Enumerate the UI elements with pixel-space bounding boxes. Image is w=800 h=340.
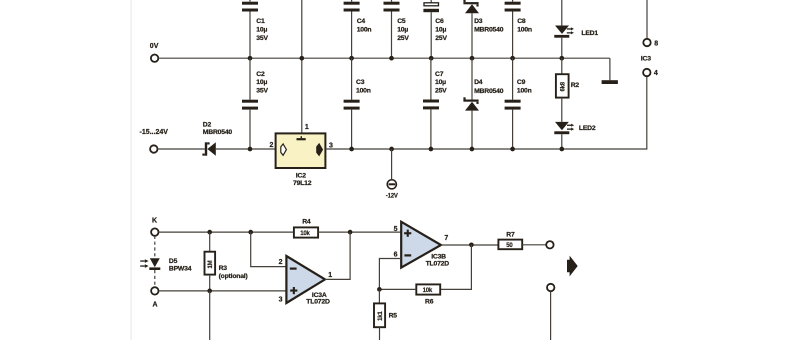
output arrow <box>567 256 578 277</box>
capacitor C1 <box>242 0 268 58</box>
svg-text:7: 7 <box>444 235 448 242</box>
svg-text:C2: C2 <box>256 71 265 78</box>
svg-text:10k: 10k <box>300 231 310 237</box>
svg-text:10µ: 10µ <box>397 26 408 33</box>
svg-text:-12V: -12V <box>386 193 398 199</box>
wire input <box>158 148 205 150</box>
wire A rail <box>159 290 287 292</box>
node output IC3A <box>348 230 353 235</box>
svg-text:100n: 100n <box>357 26 372 33</box>
wire IC3 pin8 <box>646 0 648 39</box>
node C4/C3 <box>349 56 354 61</box>
wire -12V tap <box>391 149 393 179</box>
svg-text:C3: C3 <box>356 79 365 86</box>
svg-text:0V: 0V <box>150 43 159 50</box>
node C8/C9 <box>510 56 515 61</box>
node R3 bottom <box>207 289 212 294</box>
svg-text:4: 4 <box>654 70 658 77</box>
node -12V tap <box>389 147 394 152</box>
svg-text:100n: 100n <box>356 87 371 94</box>
terminal out1 <box>546 241 553 248</box>
scan edge line <box>130 0 133 340</box>
photodiode D5 <box>140 258 192 272</box>
wire dashed D5 to A <box>154 270 156 287</box>
svg-text:K: K <box>152 217 157 224</box>
svg-text:D3: D3 <box>474 18 483 25</box>
pin IC3 p4 <box>643 69 650 76</box>
wire out2 down <box>550 291 552 340</box>
svg-text:25V: 25V <box>435 35 447 42</box>
svg-text:MBR0540: MBR0540 <box>474 88 504 95</box>
svg-text:1: 1 <box>305 124 309 131</box>
svg-text:IC3: IC3 <box>641 56 651 63</box>
svg-text:A: A <box>153 302 158 309</box>
resistor R2 <box>556 58 580 122</box>
svg-text:D2: D2 <box>203 122 212 129</box>
node C5 0V <box>389 56 394 61</box>
node C3 rail <box>349 147 354 152</box>
node C7 rail <box>429 147 434 152</box>
svg-text:35V: 35V <box>256 88 268 95</box>
wire IC3B out <box>441 244 498 246</box>
svg-text:R3: R3 <box>219 265 228 272</box>
LED1 <box>554 0 598 58</box>
capacitor C3 <box>344 58 371 149</box>
LED2 <box>554 122 596 149</box>
wire R3 down <box>209 291 211 340</box>
svg-text:R2: R2 <box>571 82 580 89</box>
wire IC2 out rail <box>325 77 646 150</box>
resistor R7 <box>498 231 522 249</box>
capacitor C9 <box>505 58 532 149</box>
svg-text:C4: C4 <box>357 18 366 25</box>
svg-text:1k1: 1k1 <box>378 311 384 321</box>
svg-text:MBR0540: MBR0540 <box>203 129 233 136</box>
node C9 rail <box>510 147 515 152</box>
svg-text:LED1: LED1 <box>581 30 598 37</box>
svg-text:C1: C1 <box>256 18 265 25</box>
node C1/C2 0V <box>248 56 253 61</box>
svg-text:TL072D: TL072D <box>426 261 450 268</box>
svg-text:8: 8 <box>654 40 658 47</box>
capacitor C5 <box>384 0 410 58</box>
node feedback tap <box>248 230 253 235</box>
op-amp IC3B <box>394 222 450 268</box>
svg-text:C7: C7 <box>435 71 444 78</box>
terminal 0V <box>151 55 158 62</box>
wire R7 out <box>522 244 546 246</box>
capacitor C4 <box>344 0 372 58</box>
wire to pin2 <box>251 232 287 267</box>
svg-text:10µ: 10µ <box>256 26 267 33</box>
wire dashed K to D5 <box>154 236 156 258</box>
svg-text:C9: C9 <box>517 79 526 86</box>
op-amp IC3A <box>279 256 333 306</box>
svg-text:79L12: 79L12 <box>293 180 312 187</box>
svg-text:25V: 25V <box>435 88 447 95</box>
svg-text:25V: 25V <box>397 35 409 42</box>
terminal A <box>151 287 158 294</box>
svg-text:2: 2 <box>279 259 283 266</box>
resistor R4 <box>294 218 318 237</box>
svg-text:10µ: 10µ <box>435 79 446 86</box>
wire IC2 pin1 riser <box>301 0 303 133</box>
svg-text:IC3B: IC3B <box>431 254 446 261</box>
pin IC3 p8 <box>643 39 650 46</box>
wire R6 riser <box>440 245 471 290</box>
wire K rail <box>159 231 294 233</box>
wire 0V rail <box>158 57 610 59</box>
regulator IC2 <box>270 124 334 187</box>
svg-text:TL072D: TL072D <box>306 299 330 306</box>
node C6/C7 <box>429 56 434 61</box>
ground <box>602 80 618 84</box>
node R5/R6 <box>377 287 382 292</box>
wire R4 to IC3B <box>318 231 401 233</box>
node R3 top <box>207 230 212 235</box>
node C2 rail <box>248 147 253 152</box>
svg-text:R7: R7 <box>506 231 515 238</box>
svg-text:C8: C8 <box>517 18 526 25</box>
svg-text:D5: D5 <box>169 258 178 265</box>
terminal -15...24V <box>150 145 157 152</box>
svg-text:C6: C6 <box>435 18 444 25</box>
svg-text:D4: D4 <box>474 79 483 86</box>
node D3/D4 <box>470 56 475 61</box>
diode D2 <box>202 122 232 156</box>
resistor R3 <box>205 232 248 291</box>
svg-text:100n: 100n <box>517 88 532 95</box>
diode D4 <box>463 58 503 149</box>
svg-text:R4: R4 <box>302 218 311 225</box>
svg-text:1: 1 <box>328 272 332 279</box>
wire R6 left <box>379 288 416 290</box>
svg-text:MBR0540: MBR0540 <box>474 27 504 34</box>
svg-text:(optional): (optional) <box>219 273 248 280</box>
capacitor C8 <box>505 0 532 58</box>
svg-text:5: 5 <box>394 226 398 233</box>
svg-text:R5: R5 <box>389 313 398 320</box>
svg-text:C5: C5 <box>397 18 406 25</box>
svg-text:50: 50 <box>506 243 513 249</box>
diode D3 <box>463 0 503 58</box>
svg-text:3: 3 <box>279 297 283 304</box>
node LED1 0V <box>559 56 564 61</box>
svg-text:2: 2 <box>270 142 274 149</box>
wire IC3A out <box>325 232 350 279</box>
svg-text:10µ: 10µ <box>256 79 267 86</box>
svg-text:10µ: 10µ <box>435 26 446 33</box>
svg-text:100n: 100n <box>517 26 532 33</box>
capacitor C6 <box>423 0 447 58</box>
wire pin6 <box>379 259 401 290</box>
svg-text:IC2: IC2 <box>296 173 306 180</box>
svg-text:6k8: 6k8 <box>560 81 566 91</box>
svg-text:35V: 35V <box>256 35 268 42</box>
svg-text:-15...24V: -15...24V <box>140 129 169 136</box>
wire D2 to IC2 <box>216 148 276 150</box>
svg-text:1M: 1M <box>208 260 214 268</box>
svg-text:R6: R6 <box>425 298 434 305</box>
capacitor C2 <box>242 58 268 149</box>
wire ground drop <box>609 58 611 80</box>
resistor R5 <box>374 289 397 340</box>
terminal K <box>151 228 158 235</box>
node LED2 rail <box>559 147 564 152</box>
svg-text:LED2: LED2 <box>579 125 596 132</box>
node out/R6 <box>469 242 474 247</box>
node pin1/0V <box>299 56 304 61</box>
supply -12V <box>386 180 398 200</box>
capacitor C7 <box>423 58 447 149</box>
svg-text:10k: 10k <box>423 288 433 294</box>
svg-text:BPW34: BPW34 <box>169 265 192 272</box>
svg-text:6: 6 <box>394 251 398 258</box>
resistor R6 <box>416 284 440 305</box>
terminal out2 <box>547 284 554 291</box>
node D4 rail <box>470 147 475 152</box>
